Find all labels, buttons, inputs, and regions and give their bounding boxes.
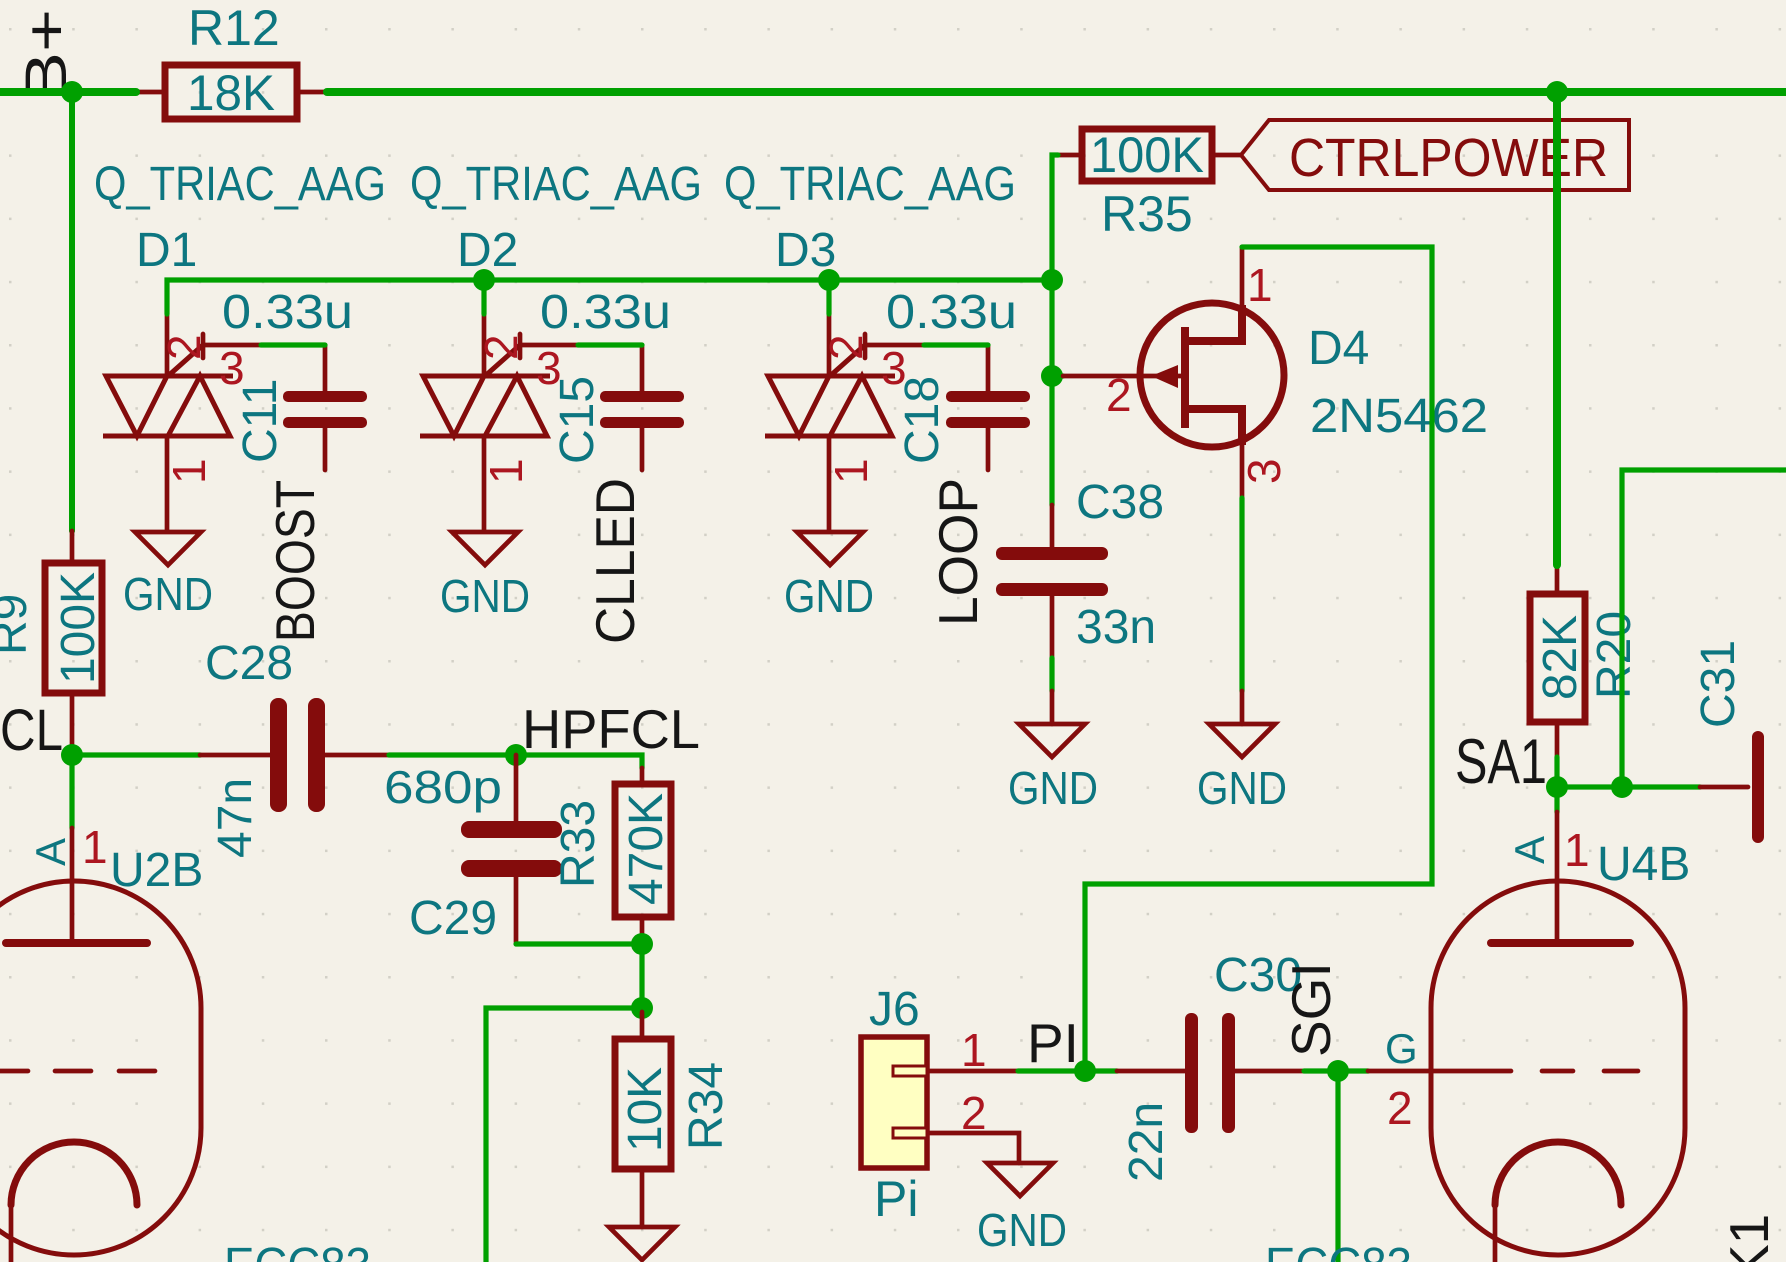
svg-text:33n: 33n	[1076, 601, 1156, 654]
svg-text:D3: D3	[775, 224, 836, 277]
wire D3 drop	[826, 280, 831, 314]
svg-text:R12: R12	[188, 0, 280, 56]
node HPFCL junction	[505, 744, 527, 766]
svg-text:CL: CL	[0, 698, 63, 763]
svg-text:C38: C38	[1076, 476, 1164, 529]
wire B+ bus right	[327, 88, 1786, 96]
svg-text:C31: C31	[1692, 640, 1745, 728]
svg-text:2: 2	[1387, 1082, 1413, 1134]
wire gate to D4	[1052, 373, 1063, 378]
triac D1	[94, 158, 386, 531]
svg-text:Pi: Pi	[874, 1171, 918, 1227]
power flag B+	[14, 9, 79, 101]
svg-text:2: 2	[820, 334, 872, 360]
node D2 junction	[473, 269, 495, 291]
capacitor C18	[886, 286, 1030, 470]
wire C31 riser	[1622, 470, 1786, 787]
svg-text:GND: GND	[784, 570, 874, 622]
wire D3 gate to C18	[924, 342, 988, 347]
node gate junction	[1041, 365, 1063, 387]
wire bus to R20	[1553, 92, 1561, 565]
svg-text:1: 1	[82, 821, 108, 873]
svg-text:3: 3	[1238, 458, 1290, 484]
svg-text:82K: 82K	[1534, 615, 1587, 700]
svg-text:G: G	[1385, 1025, 1418, 1072]
ground symbol GND (D1)	[123, 532, 213, 620]
svg-text:1: 1	[1564, 824, 1590, 876]
node B+ junction	[61, 81, 83, 103]
connector J6	[861, 983, 1019, 1227]
resistor R34	[615, 1012, 733, 1227]
svg-text:R9: R9	[0, 594, 37, 655]
capacitor C28	[200, 637, 389, 858]
svg-text:R34: R34	[680, 1062, 733, 1150]
svg-text:470K: 470K	[620, 793, 673, 905]
svg-text:ECC83: ECC83	[1265, 1239, 1412, 1262]
node bus-R20 junction	[1546, 81, 1568, 103]
svg-text:R20: R20	[1588, 611, 1641, 699]
svg-text:C15: C15	[551, 376, 604, 464]
svg-text:0.33u: 0.33u	[222, 286, 353, 339]
resistor R20	[1530, 565, 1641, 757]
svg-text:D1: D1	[136, 224, 197, 277]
ground symbol GND (R34)	[609, 1227, 675, 1260]
svg-text:GND: GND	[1008, 762, 1098, 814]
hierarchical label CTRLPOWER	[1241, 120, 1629, 190]
node R33/C29 junction	[631, 933, 653, 955]
svg-text:1: 1	[825, 458, 877, 484]
wire D-row bus	[167, 280, 1052, 314]
wire C29 to node	[516, 941, 642, 946]
wire HPFCL to R33	[516, 755, 642, 768]
tube U4B	[1265, 812, 1690, 1262]
wire D4 drain to SGI elbow	[1085, 247, 1432, 1071]
svg-text:680p: 680p	[384, 761, 502, 813]
wire B+ bus left	[0, 88, 136, 96]
svg-text:U4B: U4B	[1597, 838, 1690, 891]
svg-text:Q_TRIAC_AAG: Q_TRIAC_AAG	[94, 158, 386, 211]
svg-text:R35: R35	[1101, 186, 1193, 242]
resistor R35	[1058, 127, 1241, 242]
wire SA1 to U4B	[1554, 787, 1559, 812]
wire D2 drop	[481, 280, 486, 314]
capacitor C30	[1117, 949, 1304, 1182]
wire B+ to R9	[69, 92, 75, 531]
svg-text:U2B: U2B	[110, 844, 203, 897]
svg-text:GND: GND	[977, 1204, 1067, 1256]
triac D2	[410, 158, 702, 531]
node PI junction	[1074, 1060, 1096, 1082]
svg-text:0.33u: 0.33u	[886, 286, 1017, 339]
wire CL down to U2B	[69, 755, 74, 828]
wire SGI down	[1335, 1071, 1340, 1262]
svg-text:K1: K1	[1718, 1214, 1780, 1262]
node R35/D-row junction	[1041, 269, 1063, 291]
wire SA1 row	[1557, 784, 1700, 789]
capacitor C29	[384, 755, 562, 945]
ground symbol GND (J6)	[977, 1163, 1067, 1256]
svg-text:1: 1	[480, 458, 532, 484]
wire R33 node down	[639, 944, 644, 1008]
svg-text:Q_TRIAC_AAG: Q_TRIAC_AAG	[410, 158, 702, 211]
svg-text:C18: C18	[896, 376, 949, 464]
svg-text:D2: D2	[457, 224, 518, 277]
capacitor C38	[996, 476, 1164, 658]
node D3 junction	[818, 269, 840, 291]
node SGI junction	[1327, 1060, 1349, 1082]
svg-text:2: 2	[475, 334, 527, 360]
capacitor C15	[540, 286, 684, 470]
node CL junction	[61, 744, 83, 766]
wire R20 to SA1	[1554, 757, 1559, 787]
resistor R33	[552, 768, 673, 936]
svg-text:GND: GND	[123, 568, 213, 620]
wire D1 gate to C11	[261, 342, 325, 347]
svg-text:100K: 100K	[52, 572, 105, 684]
resistor R12	[136, 0, 327, 121]
ground symbol GND (D2)	[440, 532, 530, 622]
svg-text:SA1: SA1	[1455, 727, 1547, 797]
svg-text:C29: C29	[409, 892, 497, 945]
node R34 junction	[631, 997, 653, 1019]
capacitor C31	[1692, 640, 1764, 843]
svg-text:1: 1	[1247, 259, 1273, 311]
wire R35 to gate node	[1052, 155, 1058, 505]
svg-text:10K: 10K	[619, 1067, 672, 1152]
ground symbol GND (C38)	[1008, 691, 1098, 814]
svg-text:18K: 18K	[187, 65, 275, 121]
svg-text:ECC83: ECC83	[224, 1239, 371, 1262]
svg-text:0.33u: 0.33u	[540, 286, 671, 339]
svg-text:GND: GND	[1197, 762, 1287, 814]
svg-text:A: A	[27, 838, 74, 866]
wire C38 to ground	[1049, 658, 1054, 691]
svg-text:1: 1	[163, 458, 215, 484]
svg-text:BOOST: BOOST	[264, 480, 326, 642]
wire CL to C28	[72, 752, 200, 757]
resistor R9	[0, 531, 105, 750]
wire D4 source down	[1239, 498, 1244, 691]
ground symbol GND (D3)	[784, 532, 874, 622]
svg-text:1: 1	[961, 1024, 987, 1076]
svg-text:47n: 47n	[209, 778, 262, 858]
svg-text:C11: C11	[234, 379, 287, 464]
svg-text:100K: 100K	[1090, 127, 1204, 183]
svg-text:D4: D4	[1308, 322, 1369, 375]
capacitor C11	[222, 286, 367, 470]
node C31 junction	[1611, 776, 1633, 798]
svg-text:2: 2	[158, 334, 210, 360]
node SA1 junction	[1546, 776, 1568, 798]
svg-text:R33: R33	[552, 800, 605, 888]
svg-text:SGI: SGI	[1280, 962, 1342, 1057]
svg-text:2: 2	[961, 1087, 987, 1139]
wire node to U2B grid	[486, 1008, 642, 1262]
svg-text:2: 2	[1106, 369, 1132, 421]
svg-text:J6: J6	[869, 983, 920, 1036]
wire C30 to U4B grid	[1304, 1068, 1368, 1073]
triac D3	[724, 158, 1016, 531]
ground symbol GND (D4)	[1197, 691, 1287, 814]
svg-text:2N5462: 2N5462	[1310, 390, 1488, 443]
wire C28 to HPFCL	[389, 752, 516, 757]
transistor D4	[1063, 247, 1488, 498]
svg-text:22n: 22n	[1120, 1102, 1173, 1182]
svg-text:Q_TRIAC_AAG: Q_TRIAC_AAG	[724, 158, 1016, 211]
svg-text:HPFCL: HPFCL	[522, 698, 700, 760]
wire D2 gate to C15	[578, 342, 642, 347]
svg-text:A: A	[1506, 836, 1553, 864]
svg-text:CLLED: CLLED	[584, 478, 646, 644]
svg-text:LOOP: LOOP	[927, 478, 989, 626]
svg-text:GND: GND	[440, 570, 530, 622]
wire J6 to C30	[1018, 1068, 1117, 1073]
svg-text:C28: C28	[205, 637, 293, 690]
svg-text:PI: PI	[1027, 1012, 1079, 1074]
tube U2B	[0, 821, 371, 1262]
